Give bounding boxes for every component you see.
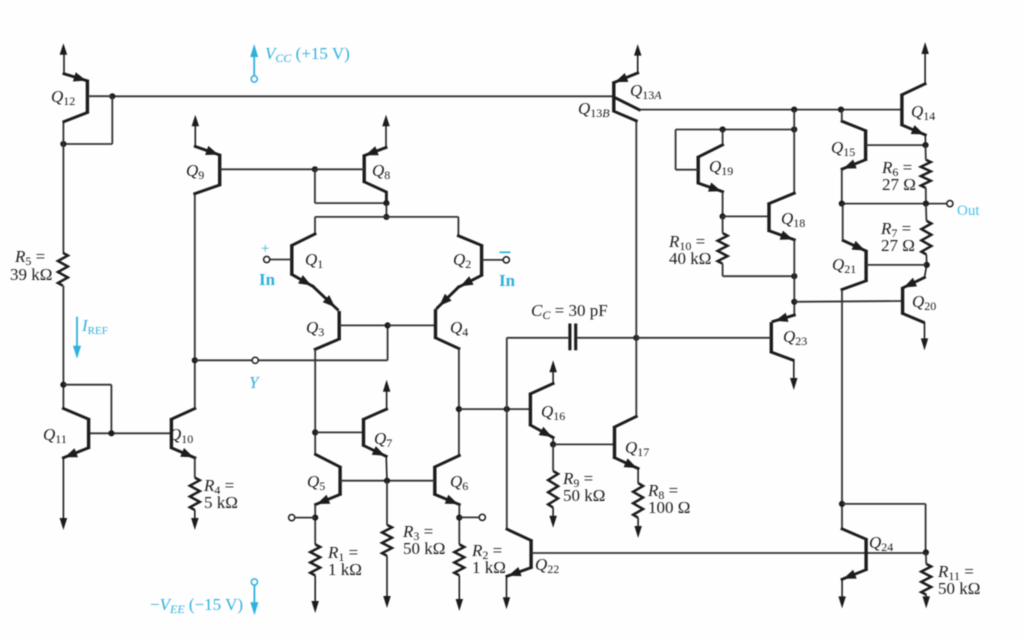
transistor Q12 (PNP): [64, 53, 112, 122]
node junction on Q11-Q10 base line: [108, 430, 114, 436]
supply VCC terminal: [250, 44, 258, 82]
resistor R8: [633, 483, 643, 518]
transistor Q23 (PNP): [636, 313, 794, 360]
wire capacitor left lead: [507, 337, 569, 339]
label -VEE (-15 V): [150, 595, 243, 616]
svg-text:Y: Y: [249, 373, 260, 392]
value label CC = 30 pF: [531, 301, 608, 322]
power arrow Q8 emitter to VCC: [382, 115, 390, 127]
svg-text:27 Ω: 27 Ω: [882, 175, 916, 194]
svg-text:+: +: [261, 241, 269, 257]
label Q6: [450, 472, 468, 493]
wire Q8 collector to input-pair collector line: [385, 203, 387, 217]
label Q5: [307, 472, 325, 493]
label VCC (+15 V): [265, 44, 350, 65]
svg-text:Q20: Q20: [912, 292, 936, 313]
power arrow Q7 collector to VCC: [383, 380, 391, 409]
transistor Q20 (PNP): [903, 265, 927, 322]
value label R7 = 27 Ohm: [880, 219, 915, 255]
transistor Q18 (NPN): [769, 193, 794, 240]
label minus sign: [500, 251, 511, 253]
wire Q16 base line: [459, 408, 531, 410]
wire Q21 emitter up to Out line: [842, 204, 844, 241]
label Q14: [911, 102, 935, 123]
svg-text:Q15: Q15: [831, 138, 855, 159]
wire Q23 collector down: [790, 360, 798, 390]
node junction compensation tap: [504, 406, 510, 412]
label Q21: [832, 255, 856, 276]
svg-text:Q10: Q10: [169, 425, 193, 446]
node junction R10 bottom / Q18 emitter: [791, 273, 797, 279]
wire Q18 base: [723, 215, 769, 217]
wire Q1-Q2 collector rail: [315, 217, 458, 236]
label Q3: [306, 318, 324, 339]
value label R2 = 1 kOhm: [471, 541, 506, 577]
wire Q24 collector-base tie loop: [842, 504, 926, 552]
wire Q10 emitter to R4: [194, 458, 196, 478]
transistor Q7 (NPN): [364, 409, 388, 481]
resistor R10: [718, 233, 728, 264]
node junction Q13A to Q19 line: [791, 126, 797, 132]
wire R1 to VEE arrow: [311, 575, 319, 613]
node junction R6/R7 on Out line: [923, 201, 929, 207]
resistor R3: [382, 525, 392, 556]
label Y: [249, 373, 260, 392]
value label R1 = 1 kOhm: [327, 543, 362, 579]
label Q20: [912, 292, 936, 313]
wire R3 to VEE arrow: [383, 556, 391, 608]
svg-text:Q17: Q17: [625, 438, 649, 459]
svg-text:50 kΩ: 50 kΩ: [563, 486, 605, 505]
svg-text:Q14: Q14: [911, 102, 935, 123]
capacitor CC 30 pF: [570, 324, 576, 351]
transistor Q5 (NPN): [316, 455, 387, 505]
resistor R6: [921, 160, 931, 188]
wire Q22 emitter down: [503, 576, 510, 609]
supply -VEE terminal: [250, 579, 258, 615]
resistor R5: [58, 253, 68, 286]
power arrow Q16 collector to VCC: [549, 360, 557, 383]
svg-text:Q18: Q18: [781, 209, 805, 230]
svg-text:50 kΩ: 50 kΩ: [938, 579, 980, 598]
svg-text:In: In: [259, 270, 276, 289]
node junction Q8/Q9 base tie: [312, 166, 318, 172]
svg-text:CC = 30 pF: CC = 30 pF: [531, 301, 608, 322]
svg-text:5 kΩ: 5 kΩ: [204, 493, 238, 512]
node junction Q16 base line left: [456, 406, 462, 412]
svg-text:100 Ω: 100 Ω: [648, 498, 690, 517]
wire Q24 emitter down: [838, 579, 846, 608]
wire Q20 base line: [794, 300, 902, 303]
transistor Q14 (NPN): [902, 84, 926, 145]
wire R2 to VEE arrow: [456, 575, 464, 611]
wire Q9 collector down to Y line: [194, 194, 196, 361]
label Q7: [374, 429, 392, 450]
node junction input-pair collector line: [383, 214, 389, 220]
wire R10 leads: [723, 216, 795, 276]
wire Q5 emitter to R1: [314, 505, 316, 545]
node junction R7 / Q21 base / Q20 emitter: [924, 262, 930, 268]
terminal node Y: [252, 357, 258, 363]
transistor Q21 (PNP): [842, 241, 927, 290]
label Q22: [535, 555, 559, 576]
node junction Q7 base tap: [312, 429, 318, 435]
label plus sign: [261, 241, 269, 257]
label Q9: [186, 161, 204, 182]
wire Q5-Q6 base to R3: [386, 481, 388, 525]
wire R9 to VEE arrow: [549, 508, 557, 528]
label Q4: [450, 318, 468, 339]
value label R11 = 50 kOhm: [937, 562, 980, 598]
label Out: [957, 203, 980, 219]
transistor Q10 (NPN): [171, 409, 194, 458]
svg-text:Q22: Q22: [535, 555, 559, 576]
wire Q8 base-collector tie: [315, 169, 387, 203]
node junction Q19 collector: [720, 126, 726, 132]
node junction Q15 emitter on Out line: [839, 201, 845, 207]
wire R11 to VEE arrow: [923, 595, 931, 609]
node junction Q5-Q6 base line: [384, 478, 390, 484]
wire Q7 base: [315, 431, 363, 433]
node junction CC to Q13B/Q17/Q23: [633, 335, 639, 341]
svg-text:Q13B: Q13B: [578, 99, 610, 120]
svg-text:Q16: Q16: [541, 402, 565, 423]
svg-text:Q21: Q21: [832, 255, 856, 276]
svg-text:IREF: IREF: [81, 316, 108, 337]
svg-text:Q6: Q6: [450, 472, 468, 493]
svg-text:Q24: Q24: [869, 533, 893, 554]
value label R5 = 39 kOhm: [10, 247, 52, 284]
wire Q3-Q5 collector column: [314, 349, 316, 454]
resistor R7: [921, 221, 931, 255]
transistor Q2 (NPN input -): [458, 236, 503, 287]
label Q13A: [630, 81, 662, 102]
label Q17: [625, 438, 649, 459]
power arrow Q14 collector to VCC: [921, 42, 929, 84]
wire Q11-Q10 base line: [89, 432, 172, 434]
label In (noninverting): [259, 270, 276, 289]
node junction Q16 emitter / Q17 base: [550, 441, 556, 447]
value label R3 = 50 kOhm: [402, 522, 445, 558]
wire compensation node vertical: [506, 338, 508, 529]
wire Q15 collector up: [841, 110, 843, 122]
transistor Q3 (PNP): [313, 286, 388, 349]
wire Q20 collector down: [921, 322, 928, 350]
wire Q16 emitter to R9: [552, 444, 554, 471]
wire Q18 collector column: [793, 110, 795, 194]
node junction R11 top: [923, 549, 929, 555]
value label R6 = 27 Ohm: [881, 158, 916, 194]
label Q24: [869, 533, 893, 554]
wire Q13A collector rail to Q14 base: [639, 109, 902, 111]
svg-text:1 kΩ: 1 kΩ: [328, 560, 362, 579]
svg-text:Q8: Q8: [372, 161, 390, 182]
label Q12: [51, 87, 75, 108]
power arrow Q9 emitter to VCC: [192, 115, 200, 127]
wire Q12 collector-base tie loop: [63, 96, 112, 144]
terminal Q6 emitter stub: [459, 514, 485, 520]
resistor R4: [190, 478, 200, 510]
terminal In+ input: [264, 256, 270, 262]
node junction Q20 base feed: [791, 299, 797, 305]
wire Q19 base-collector tie loop: [676, 130, 795, 170]
node junction Q15 collector: [838, 107, 844, 113]
resistor R9: [548, 471, 558, 508]
terminal Q5 emitter stub: [289, 515, 316, 521]
wire Q6 emitter to R2: [458, 505, 460, 545]
svg-text:Q9: Q9: [186, 161, 204, 182]
wire Q22-Q24 base line: [531, 552, 926, 554]
transistor Q13 (dual-collector PNP): [614, 55, 640, 121]
node junction Q8 collector: [383, 200, 389, 206]
wire R7 leads: [925, 204, 928, 265]
node junction Q19 feed: [791, 107, 797, 113]
terminal In- input: [503, 257, 509, 263]
svg-text:Q23: Q23: [783, 327, 807, 348]
label Q23: [783, 327, 807, 348]
wire R8 to VEE arrow: [634, 518, 642, 538]
svg-text:In: In: [499, 271, 516, 290]
svg-text:VCC (+15 V): VCC (+15 V): [265, 44, 350, 65]
wire Q15 emitter down to Out line: [841, 169, 843, 204]
resistor R1: [310, 544, 320, 575]
svg-text:−VEE (−15 V): −VEE (−15 V): [150, 595, 243, 616]
svg-text:Q2: Q2: [453, 250, 471, 271]
node junction Q3-Q4 base line: [385, 322, 391, 328]
label Q8: [372, 161, 390, 182]
wire VCC rail from Q12 base to Q13 base: [112, 95, 614, 97]
transistor Q17 (NPN): [615, 417, 639, 484]
wire Q17 base line: [553, 443, 614, 445]
wire Q19 collector up: [722, 130, 724, 145]
resistor R11: [921, 564, 931, 595]
svg-text:39 kΩ: 39 kΩ: [10, 265, 52, 284]
wire left bias column (Q12 collector to Q11 collector): [62, 122, 64, 409]
node junction left column to Q10 base link: [60, 382, 66, 388]
label Q2: [453, 250, 471, 271]
label Q19: [709, 157, 733, 178]
transistor Q6 (NPN): [387, 456, 459, 505]
current label I_REF with arrow: [73, 316, 108, 359]
wire Q13B collector column: [635, 121, 637, 417]
svg-text:40 kΩ: 40 kΩ: [669, 249, 711, 268]
svg-text:50 kΩ: 50 kΩ: [403, 539, 445, 558]
label Q1: [305, 250, 323, 271]
node junction Q12 base-collector tie: [109, 93, 115, 99]
transistor Q8 (PNP): [315, 124, 387, 203]
wire R11 leads: [925, 552, 927, 564]
value label R9 = 50 kOhm: [562, 469, 605, 505]
svg-text:Q12: Q12: [51, 87, 75, 108]
transistor Q11 (NPN): [63, 409, 88, 458]
wire capacitor right lead: [577, 337, 636, 339]
wire Q3-Q4 base line: [388, 324, 436, 326]
label Q11: [43, 425, 67, 446]
svg-text:Q11: Q11: [43, 425, 67, 446]
value label R4 = 5 kOhm: [203, 476, 238, 512]
value label R10 = 40 kOhm: [668, 232, 711, 268]
wire R4 to VEE arrow: [191, 510, 199, 530]
wire R6 leads: [925, 145, 927, 204]
transistor Q4 (PNP): [436, 287, 459, 348]
node junction Q12 collector: [60, 141, 66, 147]
wire Q11 emitter down: [60, 458, 68, 530]
value label R8 = 100 Ohm: [647, 481, 690, 517]
node junction Q14 emitter / R6 / Q15 base: [922, 142, 928, 148]
node junction Q24 collector tie: [839, 501, 845, 507]
svg-text:Q3: Q3: [306, 318, 324, 339]
transistor Q24 (NPN): [842, 529, 866, 579]
svg-text:Q4: Q4: [450, 318, 468, 339]
label Q13B: [578, 99, 610, 120]
wire Q10 collector to Y line: [194, 360, 196, 408]
label Q15: [831, 138, 855, 159]
transistor Q1 (NPN input +): [270, 234, 315, 286]
wire Q19 emitter to Q18 base: [722, 192, 724, 217]
label Q18: [781, 209, 805, 230]
svg-text:Q13A: Q13A: [630, 81, 662, 102]
power arrow Q12 emitter to VCC: [60, 43, 68, 55]
transistor Q16 (NPN): [530, 384, 553, 445]
node junction Q6 emitter terminal: [456, 515, 462, 521]
transistor Q19 (NPN): [676, 145, 723, 192]
node junction Q5 emitter terminal: [312, 515, 318, 521]
transistor Q9 (PNP): [195, 124, 315, 194]
transistor Q15 (NPN): [842, 121, 925, 169]
node junction Q18 base / R10 top: [720, 213, 726, 219]
svg-text:Out: Out: [957, 203, 980, 219]
transistor Q22 (NPN): [507, 529, 531, 576]
label Q10: [169, 425, 193, 446]
resistor R2: [454, 544, 464, 575]
svg-text:27 Ω: 27 Ω: [881, 236, 915, 255]
wire output line: [842, 203, 947, 205]
wire Q4-Q6 collector column: [458, 349, 460, 456]
svg-text:Q1: Q1: [305, 250, 323, 271]
svg-text:Q7: Q7: [374, 429, 392, 450]
label Q16: [541, 402, 565, 423]
svg-text:Q19: Q19: [709, 157, 733, 178]
wire node Y horizontal: [195, 325, 388, 360]
svg-text:1 kΩ: 1 kΩ: [472, 558, 506, 577]
wire Q21 collector down to Q24: [841, 290, 843, 529]
svg-text:Q5: Q5: [307, 472, 325, 493]
wire Q18 emitter down to Q23: [793, 240, 795, 315]
power arrow Q13 emitter to VCC: [634, 44, 642, 56]
wire Q11/Q10 base feed: [63, 385, 111, 434]
terminal Out: [947, 201, 953, 207]
node junction Y line at Q9/Q10 collectors: [192, 357, 198, 363]
label In (inverting): [499, 271, 516, 290]
